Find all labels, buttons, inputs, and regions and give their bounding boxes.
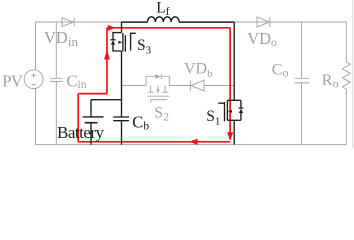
battery symbol (90, 100, 92, 117)
wire: R_o branch verticals (345, 22, 347, 145)
red current loop: jog horizontal (78, 93, 107, 95)
inductor L_f coil (148, 17, 180, 22)
svg-text:Ro: Ro (322, 72, 339, 90)
wire: C_in branch vertical (55, 22, 57, 145)
svg-text:Lf: Lf (156, 0, 169, 18)
wire: S_2 left lead (122, 85, 147, 87)
switch S2 (grey MOSFET with body diode, horizontal) (146, 74, 169, 102)
red arrow left (return along bottom) (189, 139, 198, 145)
svg-text:Battery: Battery (57, 123, 105, 142)
wire: black vertical from S3 source to battery node and C_b (121, 51, 123, 145)
red arrow up (battery to S3) (104, 50, 110, 60)
wire: black vertical from top wire down to S1 drain (233, 22, 235, 100)
wire: grey left vertical (PV branch) (35, 22, 37, 145)
red arrow down (through S1) (227, 132, 233, 141)
capacitor C_in (50, 78, 62, 81)
capacitor C_o (295, 78, 310, 83)
wire: C_o branch verticals (301, 22, 303, 145)
MOSFET S1 (218, 22, 243, 145)
svg-text:Cb: Cb (132, 112, 149, 132)
wire: grey top-left horizontal (35, 21, 122, 23)
wire: black top horizontal left part (122, 21, 148, 23)
svg-text:PV: PV (2, 72, 23, 91)
red current loop: right vertical (229, 28, 231, 139)
red current loop: left upper vertical (106, 28, 108, 94)
diode VD_in (62, 18, 74, 27)
MOSFET S3 (111, 22, 136, 52)
svg-text:S1: S1 (206, 108, 220, 127)
faint right border (352, 0, 354, 148)
svg-text:Co: Co (272, 61, 289, 79)
wire: S_2 right lead to VD_b and on to S_1 branch (169, 85, 234, 87)
wire: grey top-right horizontal (234, 21, 346, 23)
svg-text:VDo: VDo (247, 29, 277, 49)
diode VD_o (257, 17, 269, 27)
PV source (24, 70, 43, 89)
diode VD_b (191, 80, 204, 91)
svg-text:VDin: VDin (44, 28, 78, 49)
wire: black vertical S1 source to bottom wire (233, 120, 235, 144)
resistor R_o zigzag (342, 62, 350, 89)
wire: black top horizontal right part (179, 21, 234, 23)
svg-text:S2: S2 (154, 105, 169, 124)
wire: battery top horizontal (91, 99, 122, 101)
battery branch (83, 100, 122, 145)
red current loop: left lower vertical (77, 94, 79, 142)
capacitor C_b (113, 117, 129, 121)
svg-text:VDb: VDb (184, 61, 213, 80)
svg-text:S3: S3 (137, 37, 152, 56)
red current loop: top segment (107, 27, 230, 29)
red current loop: bottom segment (78, 141, 230, 143)
black top wire with inductor L_f (122, 17, 235, 22)
wire: grey bottom horizontal (35, 144, 346, 146)
red arrow right (into L_f) (108, 25, 116, 31)
svg-text:Cin: Cin (67, 72, 87, 92)
